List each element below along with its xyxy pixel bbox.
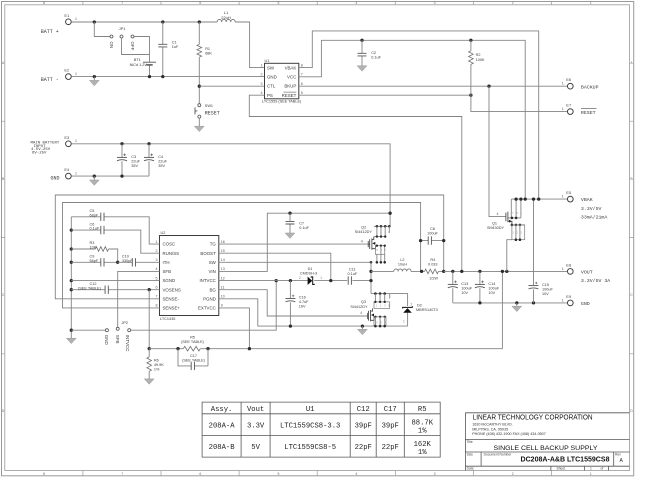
ground (left bus)	[66, 338, 76, 343]
capacitor C1 1uF	[162, 22, 164, 77]
svg-text:4: 4	[261, 91, 263, 95]
svg-text:RESET: RESET	[581, 110, 596, 116]
svg-text:10uH: 10uH	[398, 262, 407, 266]
resistor R6 49.9K 1%	[148, 347, 151, 350]
svg-text:162K: 162K	[414, 441, 432, 449]
svg-text:2: 2	[299, 276, 301, 280]
svg-text:Date:: Date:	[467, 467, 475, 471]
svg-text:R5: R5	[418, 406, 427, 414]
svg-text:C13: C13	[461, 282, 468, 286]
svg-text:10K: 10K	[90, 246, 97, 250]
svg-text:VBAK: VBAK	[581, 197, 593, 203]
svg-text:12: 12	[221, 276, 225, 280]
svg-text:5V: 5V	[251, 444, 260, 452]
svg-text:Q2: Q2	[361, 226, 366, 230]
diode D1 CMDSH-3	[308, 277, 313, 285]
svg-text:U2: U2	[161, 231, 166, 235]
svg-text:68K: 68K	[205, 51, 212, 55]
svg-text:C14: C14	[488, 282, 495, 286]
svg-text:7: 7	[121, 1, 123, 5]
svg-text:BKUP: BKUP	[284, 84, 296, 89]
svg-text:E4: E4	[64, 167, 70, 172]
svg-text:1%: 1%	[418, 449, 427, 457]
wire RESET row	[299, 94, 471, 96]
svg-text:GND: GND	[51, 175, 60, 181]
resistor R5 (SEE TABLE)	[183, 346, 200, 351]
svg-text:C12: C12	[90, 282, 97, 286]
svg-text:8: 8	[43, 1, 45, 5]
svg-text:3: 3	[434, 1, 436, 5]
svg-text:PGND: PGND	[203, 296, 216, 301]
svg-text:LTC1559CS8-5: LTC1559CS8-5	[284, 444, 336, 452]
svg-text:4: 4	[356, 472, 358, 476]
svg-text:4: 4	[156, 267, 158, 271]
svg-text:RUN/SS: RUN/SS	[163, 251, 180, 256]
svg-text:ON: ON	[109, 42, 114, 49]
svg-text:5: 5	[277, 1, 279, 5]
svg-text:0.1uF: 0.1uF	[90, 227, 100, 231]
svg-text:2: 2	[411, 302, 413, 306]
svg-text:330pF: 330pF	[122, 259, 133, 263]
svg-text:0.1uF: 0.1uF	[371, 55, 381, 59]
svg-text:LTC1559 (SEE TABLE): LTC1559 (SEE TABLE)	[262, 100, 302, 104]
wire VIN rail	[71, 144, 390, 227]
svg-text:PHONE (408) 432-1900 FAX (40: PHONE (408) 432-1900 FAX (408) 434-0507	[472, 432, 546, 436]
svg-text:SGND: SGND	[163, 278, 176, 283]
ground (C7)	[285, 233, 295, 238]
wire PS loop	[249, 95, 461, 271]
capacitor C16 4.7uF 16V	[289, 281, 291, 327]
svg-text:E1: E1	[64, 13, 70, 18]
svg-text:BATT -: BATT -	[41, 77, 59, 83]
svg-text:5: 5	[301, 91, 303, 95]
svg-text:33mA/21mA: 33mA/21mA	[581, 214, 607, 220]
svg-text:VBAK: VBAK	[285, 65, 297, 70]
svg-text:BOOST: BOOST	[200, 251, 216, 256]
svg-text:6V-25V: 6V-25V	[32, 152, 47, 156]
capacitor C15 100uF 10V	[533, 199, 535, 303]
svg-text:INTVCC: INTVCC	[125, 335, 130, 353]
resistor R1 68K	[198, 22, 200, 104]
svg-text:BATT +: BATT +	[41, 29, 59, 35]
svg-text:2: 2	[512, 1, 514, 5]
svg-text:SENSE-: SENSE-	[163, 296, 180, 301]
svg-text:49.9K: 49.9K	[154, 363, 164, 367]
ground (BATT-)	[93, 77, 95, 81]
svg-text:TG: TG	[210, 242, 217, 247]
svg-text:1: 1	[562, 195, 564, 199]
wire VOUT row	[444, 270, 568, 272]
svg-text:100uF: 100uF	[461, 286, 472, 290]
svg-text:0.033: 0.033	[428, 262, 438, 266]
terminal E1 BATT+	[66, 19, 72, 25]
ground (R6)	[144, 379, 154, 384]
svg-text:Rev: Rev	[615, 453, 621, 457]
capacitor C8 100uF	[421, 240, 444, 242]
svg-text:88.7K: 88.7K	[411, 419, 433, 427]
svg-text:Title: Title	[467, 440, 473, 444]
svg-text:INTVCC: INTVCC	[199, 278, 215, 283]
svg-text:0.1uF: 0.1uF	[347, 272, 357, 276]
svg-text:E5: E5	[566, 190, 572, 195]
diode D2 MBRS140T3	[390, 294, 408, 327]
svg-text:5: 5	[156, 276, 158, 280]
svg-text:Size: Size	[467, 453, 474, 457]
svg-text:39pF: 39pF	[355, 422, 372, 430]
svg-text:SW: SW	[267, 65, 275, 70]
svg-text:16: 16	[221, 240, 225, 244]
svg-text:22pF: 22pF	[355, 444, 372, 452]
wire VBAK net (U1 pin8)	[299, 31, 539, 199]
svg-text:3: 3	[434, 472, 436, 476]
wire INTVCC row	[219, 280, 371, 282]
svg-text:4: 4	[356, 1, 358, 5]
svg-text:0.1uF: 0.1uF	[299, 226, 309, 230]
svg-text:C4: C4	[158, 155, 163, 159]
capacitor C5 68pF	[71, 217, 159, 244]
svg-text:1: 1	[320, 276, 322, 280]
svg-text:L2: L2	[400, 258, 404, 262]
svg-text:2: 2	[156, 249, 158, 253]
svg-text:RESET: RESET	[205, 111, 220, 117]
capacitor C10 330pF	[118, 261, 160, 263]
svg-text:2: 2	[512, 472, 514, 476]
svg-text:C3: C3	[131, 155, 136, 159]
ground (E4 rail)	[93, 176, 95, 180]
svg-text:BT1: BT1	[134, 58, 141, 62]
wire BKUP row to E6	[299, 85, 568, 87]
svg-text:SFB: SFB	[163, 269, 172, 274]
svg-text:208A-A: 208A-A	[209, 422, 236, 430]
svg-text:CMDSH-3: CMDSH-3	[300, 272, 317, 276]
svg-text:11: 11	[221, 286, 225, 290]
battery BT1 NiCd 1.2V	[143, 61, 156, 63]
svg-text:1: 1	[590, 472, 592, 476]
svg-text:MILPITAS, CA. 95035: MILPITAS, CA. 95035	[472, 427, 508, 431]
svg-text:LTC1435: LTC1435	[160, 317, 175, 321]
svg-text:35V: 35V	[158, 164, 165, 168]
svg-text:1: 1	[156, 240, 158, 244]
svg-text:8: 8	[301, 63, 303, 67]
svg-text:DC208A-A&B LTC1559CS8: DC208A-A&B LTC1559CS8	[521, 457, 610, 464]
svg-text:SW: SW	[209, 260, 217, 265]
svg-text:R3: R3	[90, 241, 95, 245]
svg-text:U1: U1	[306, 406, 315, 414]
svg-text:1: 1	[562, 107, 564, 111]
capacitor C13 100uF 10V	[452, 271, 454, 303]
svg-text:8: 8	[156, 304, 158, 308]
wire SW row	[219, 261, 371, 263]
svg-text:E2: E2	[64, 68, 70, 73]
svg-text:LTC1559CS8-3.3: LTC1559CS8-3.3	[280, 422, 340, 430]
svg-text:1: 1	[75, 17, 77, 21]
capacitor C3 22uF 35V	[121, 144, 123, 176]
terminal E9 GND	[567, 300, 573, 306]
svg-text:(SEE TABLE): (SEE TABLE)	[181, 340, 205, 344]
svg-text:22pF: 22pF	[382, 444, 399, 452]
wire left bus	[70, 217, 72, 338]
svg-text:14: 14	[221, 258, 225, 262]
wire SGND row	[71, 280, 159, 282]
svg-text:4: 4	[497, 212, 499, 216]
svg-text:VOUT: VOUT	[581, 270, 593, 276]
wire GND rail	[71, 175, 149, 177]
svg-text:3: 3	[156, 258, 158, 262]
svg-text:4.7uF: 4.7uF	[299, 300, 309, 304]
capacitor C17 (SEE TABLE)	[178, 349, 208, 366]
svg-text:C15: C15	[542, 283, 549, 287]
svg-text:6: 6	[156, 286, 158, 290]
svg-text:COSC: COSC	[163, 242, 176, 247]
svg-text:Si9430DY: Si9430DY	[487, 226, 505, 230]
svg-text:ITH: ITH	[163, 260, 170, 265]
svg-text:1: 1	[403, 320, 405, 324]
svg-text:1: 1	[590, 467, 592, 471]
wire Q1 gate net	[489, 86, 506, 216]
svg-text:Vout: Vout	[247, 406, 264, 414]
inductor L2 10uH	[371, 270, 422, 272]
svg-text:C11: C11	[349, 268, 356, 272]
svg-text:E6: E6	[566, 77, 572, 82]
svg-text:1: 1	[75, 72, 77, 76]
svg-text:D2: D2	[417, 303, 422, 307]
wire BATT+ rail	[71, 22, 264, 68]
wire TG row to Q2 gate	[219, 243, 368, 245]
wire JP1 to BT1	[122, 37, 150, 55]
ground (output)	[516, 303, 518, 306]
svg-text:2: 2	[261, 73, 263, 77]
svg-text:3.3V/5V: 3.3V/5V	[581, 206, 602, 212]
svg-text:C12: C12	[357, 406, 370, 414]
terminal E6 BACKUP	[567, 83, 573, 89]
svg-text:Si4412DY: Si4412DY	[350, 305, 368, 309]
svg-text:1: 1	[562, 82, 564, 86]
svg-text:4: 4	[361, 239, 363, 243]
svg-text:3: 3	[261, 82, 263, 86]
svg-text:7: 7	[156, 295, 158, 299]
svg-text:R5: R5	[190, 335, 195, 339]
svg-text:R6: R6	[154, 358, 159, 362]
svg-text:C17: C17	[190, 354, 197, 358]
svg-text:Document Number: Document Number	[484, 453, 513, 457]
svg-text:10V: 10V	[542, 292, 549, 296]
wire PGND row	[219, 299, 408, 326]
resistor R4 0.033	[422, 270, 444, 272]
svg-text:6: 6	[199, 1, 201, 5]
pushbutton SW1 RESET	[198, 104, 201, 107]
svg-text:MBRS140T3: MBRS140T3	[416, 308, 438, 312]
assembly options table	[202, 402, 440, 457]
wire VIN pin jog	[219, 213, 390, 271]
svg-text:CTL: CTL	[267, 84, 276, 89]
svg-text:Assy.: Assy.	[211, 406, 233, 414]
svg-text:VIN: VIN	[208, 269, 215, 274]
svg-text:1: 1	[261, 63, 263, 67]
svg-text:R1: R1	[205, 47, 210, 51]
wire VCC net (U1 pin7)	[299, 40, 525, 199]
svg-text:SENSE+: SENSE+	[163, 306, 181, 311]
svg-text:JP1: JP1	[119, 27, 126, 31]
svg-text:U1: U1	[265, 59, 270, 63]
svg-text:VOSENS: VOSENS	[163, 287, 181, 292]
svg-text:3.3V: 3.3V	[247, 422, 265, 430]
svg-text:C10: C10	[122, 255, 129, 259]
svg-text:C6: C6	[90, 222, 95, 226]
svg-text:C7: C7	[299, 222, 304, 226]
svg-text:68pF: 68pF	[90, 213, 99, 217]
title block	[465, 413, 629, 471]
svg-text:C1: C1	[172, 41, 177, 45]
ground (PGND)	[361, 326, 363, 329]
svg-text:10: 10	[221, 295, 225, 299]
svg-text:EXTVCC: EXTVCC	[198, 306, 216, 311]
svg-text:E9: E9	[566, 294, 572, 299]
svg-text:E8: E8	[566, 262, 572, 267]
svg-text:BG: BG	[209, 287, 216, 292]
svg-text:of: of	[601, 467, 604, 471]
svg-text:13: 13	[221, 267, 225, 271]
svg-text:C2: C2	[371, 51, 376, 55]
wire BATT- / GND rail to U1 pin2	[71, 76, 264, 78]
svg-text:Q1: Q1	[492, 222, 497, 226]
terminal E3 MAIN BATTERY INPUT	[66, 141, 72, 147]
svg-text:LINEAR TECHNOLOGY CORPORATION: LINEAR TECHNOLOGY CORPORATION	[473, 413, 593, 422]
svg-text:D1: D1	[308, 267, 313, 271]
transistor Q3 Si4412DY	[371, 293, 390, 295]
svg-text:6: 6	[301, 82, 303, 86]
wire JP2 INTVCC to INTVCC net	[131, 281, 277, 331]
svg-text:JP2: JP2	[122, 321, 129, 325]
svg-text:56pF: 56pF	[90, 259, 99, 263]
svg-text:15: 15	[221, 249, 225, 253]
wire SENSE+ wrap	[63, 203, 421, 308]
svg-text:1: 1	[75, 172, 77, 176]
svg-text:9: 9	[221, 304, 223, 308]
svg-text:BACKUP: BACKUP	[581, 84, 599, 90]
svg-text:E7: E7	[566, 103, 572, 108]
svg-text:NiCd 1.2V: NiCd 1.2V	[130, 63, 148, 67]
svg-text:7: 7	[301, 73, 303, 77]
capacitor C6 0.1uF	[71, 230, 159, 253]
ground (SW1)	[194, 126, 204, 131]
capacitor C7 0.1uF	[288, 212, 291, 215]
terminal E5 VBAK	[567, 196, 573, 202]
IC U1 LTC1559	[265, 63, 299, 99]
svg-text:OFF: OFF	[130, 42, 135, 51]
svg-text:VCC: VCC	[287, 75, 296, 80]
terminal E2 BATT-	[66, 74, 72, 80]
svg-text:Q3: Q3	[361, 300, 366, 304]
svg-text:208A-B: 208A-B	[209, 444, 236, 452]
svg-text:1: 1	[562, 267, 564, 271]
wire SW node vertical	[370, 262, 372, 293]
svg-text:Si4412DY: Si4412DY	[355, 230, 373, 234]
svg-text:35V: 35V	[131, 164, 138, 168]
svg-text:(SEE TABLE): (SEE TABLE)	[182, 359, 206, 363]
IC U2 LTC1435	[160, 236, 219, 316]
svg-text:100uF: 100uF	[488, 286, 499, 290]
svg-text:SINGLE CELL BACKUP SUPPLY: SINGLE CELL BACKUP SUPPLY	[494, 445, 599, 452]
ground (C2)	[357, 66, 367, 71]
svg-text:1uF: 1uF	[172, 45, 179, 49]
wire EXTVCC	[219, 308, 250, 349]
capacitor C12 (SEE TABLE)	[71, 289, 159, 291]
svg-text:100uF: 100uF	[542, 288, 553, 292]
svg-text:3.3V/5V 3A: 3.3V/5V 3A	[581, 278, 610, 284]
svg-text:7: 7	[121, 472, 123, 476]
svg-text:22uH: 22uH	[221, 15, 231, 20]
wire VOSENS vertical	[148, 290, 150, 349]
svg-text:C9: C9	[90, 255, 95, 259]
terminal E4 GND	[66, 173, 72, 179]
svg-text:4: 4	[360, 311, 362, 315]
svg-text:16V: 16V	[299, 305, 306, 309]
svg-text:5: 5	[277, 472, 279, 476]
terminal E8 VOUT	[567, 269, 573, 275]
svg-text:RESET: RESET	[282, 93, 297, 98]
svg-text:10V: 10V	[488, 291, 495, 295]
svg-text:SFB: SFB	[115, 335, 120, 344]
svg-text:SW1: SW1	[205, 104, 213, 108]
svg-text:22uF: 22uF	[158, 160, 167, 164]
inductor L1 22uH	[217, 19, 235, 22]
svg-text:1/2W: 1/2W	[429, 276, 438, 280]
wire CTL row	[199, 85, 264, 87]
jumper JP1	[94, 22, 110, 37]
svg-text:GND: GND	[104, 335, 109, 346]
svg-text:1: 1	[75, 139, 77, 143]
wire BG to Q3 gate	[219, 290, 368, 316]
transistor Q2 Si4412DY	[374, 225, 390, 227]
svg-text:Sheet: Sheet	[557, 467, 566, 471]
svg-text:1: 1	[562, 298, 564, 302]
svg-text:1%: 1%	[154, 368, 160, 372]
svg-text:PS: PS	[267, 93, 273, 98]
svg-text:100uF: 100uF	[427, 231, 438, 235]
svg-text:39pF: 39pF	[382, 422, 399, 430]
capacitor C4 22uF 35V	[148, 144, 150, 176]
svg-text:100K: 100K	[476, 58, 485, 62]
wire SFB (U2 pin4) to JP2	[118, 271, 160, 327]
jumper JP2	[71, 329, 105, 331]
wire VBAK row	[511, 198, 567, 200]
svg-text:C8: C8	[430, 227, 435, 231]
svg-text:8: 8	[43, 472, 45, 476]
capacitor C2 0.1uF	[360, 39, 363, 42]
svg-text:22uF: 22uF	[131, 160, 140, 164]
svg-text:R2: R2	[476, 53, 481, 57]
svg-text:C5: C5	[90, 209, 95, 213]
svg-text:GND: GND	[581, 301, 590, 307]
svg-text:C16: C16	[299, 295, 306, 299]
svg-text:1630 McCARTHY BLVD.: 1630 McCARTHY BLVD.	[472, 423, 513, 427]
resistor R2 100K	[469, 39, 472, 42]
svg-text:6: 6	[199, 472, 201, 476]
wire GND row	[453, 302, 568, 304]
svg-text:GND: GND	[267, 75, 277, 80]
capacitor C9 56pF	[71, 261, 117, 263]
wire BOOST	[219, 253, 331, 280]
svg-text:1: 1	[590, 1, 592, 5]
svg-text:R4: R4	[430, 258, 435, 262]
svg-text:1%: 1%	[418, 428, 427, 436]
svg-text:C17: C17	[384, 406, 397, 414]
capacitor C11 0.1uF	[348, 276, 351, 284]
capacitor C14 100uF 10V	[479, 271, 481, 303]
resistor R3 10K	[71, 249, 117, 262]
wire feedback row VOUT sense	[149, 271, 502, 348]
terminal E7 /RESET	[567, 109, 573, 115]
